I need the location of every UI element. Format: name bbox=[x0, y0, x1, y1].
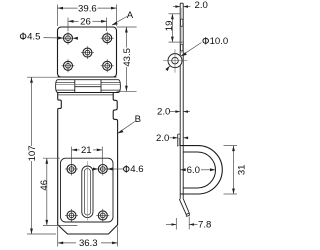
knuckle divider left bbox=[74, 80, 76, 93]
side knuckle lines bbox=[56, 81, 75, 83]
dim 26 ext lines bbox=[67, 18, 69, 32]
D loop outer bbox=[180, 146, 222, 194]
19 arrows bbox=[171, 14, 174, 19]
107 arrows bbox=[30, 77, 33, 83]
leader A bbox=[112, 17, 127, 25]
dim 107 ext top bbox=[27, 76, 58, 78]
svg-text:31: 31 bbox=[237, 164, 248, 175]
dim 7.8 ext lines bbox=[175, 218, 177, 230]
svg-text:4.6: 4.6 bbox=[130, 164, 143, 175]
inner raised face rounded rect bbox=[61, 158, 114, 222]
strip oval hole 2 bbox=[181, 44, 183, 51]
svg-text:26: 26 bbox=[80, 16, 91, 27]
phi10 arrows bbox=[181, 52, 187, 56]
staple front tab bbox=[178, 134, 181, 146]
leader phi10.0 bbox=[181, 43, 201, 56]
hole BR bbox=[101, 59, 114, 72]
dim 31 line bbox=[233, 146, 235, 194]
svg-text:2.0: 2.0 bbox=[195, 0, 208, 11]
hole TL bbox=[62, 32, 75, 45]
arrowheads side view bbox=[166, 5, 235, 226]
label 43.5 rotated bbox=[122, 48, 133, 68]
svg-text:2.0: 2.0 bbox=[157, 106, 170, 117]
bottom bent tab bbox=[179, 198, 189, 214]
dim 107 ext bottom bbox=[27, 233, 56, 235]
label phi10.0 bbox=[203, 36, 228, 47]
36.3 arrows bbox=[58, 242, 64, 245]
hinge band bbox=[56, 80, 121, 95]
7.8 arrows bbox=[172, 223, 177, 226]
dim 6.0 line bbox=[180, 169, 186, 171]
dim 39.6 line bbox=[58, 7, 78, 9]
lower hole BR bbox=[96, 209, 109, 222]
svg-text:107: 107 bbox=[27, 145, 38, 161]
dim 21 ext lines bbox=[71, 147, 73, 163]
slot inner bbox=[84, 169, 90, 215]
svg-text:7.8: 7.8 bbox=[198, 220, 211, 231]
dim 19 line bbox=[171, 14, 173, 42]
lower hole TL bbox=[65, 163, 78, 176]
lower hole TR bbox=[96, 163, 109, 176]
side strip top cap bbox=[180, 2, 183, 4]
middle knuckle line bbox=[75, 86, 101, 88]
knuckle divider right bbox=[100, 80, 102, 93]
svg-text:10.0: 10.0 bbox=[210, 36, 229, 47]
dim 26 line bbox=[68, 20, 79, 22]
svg-text:46: 46 bbox=[39, 180, 50, 191]
21 arrows bbox=[72, 149, 78, 152]
dim 107 line bbox=[31, 77, 33, 234]
dim 21 line bbox=[72, 149, 80, 151]
lower plate outline bbox=[58, 93, 118, 234]
phi4.5 arrow left bbox=[58, 37, 63, 40]
svg-text:19: 19 bbox=[164, 21, 175, 32]
svg-text:4.5: 4.5 bbox=[27, 31, 40, 42]
pin centerline bbox=[56, 84, 121, 86]
dim 19 ext lines bbox=[169, 13, 181, 15]
A arrow bbox=[112, 22, 118, 26]
strip oval hole 1 bbox=[181, 19, 183, 26]
leader B bbox=[118, 122, 135, 134]
26 arrows bbox=[68, 20, 74, 23]
43.5 arrows bbox=[125, 27, 128, 33]
2.0 lower arrows bbox=[173, 137, 178, 140]
label 107 rotated bbox=[27, 145, 38, 161]
hole TR bbox=[101, 32, 114, 45]
svg-text:B: B bbox=[135, 114, 141, 125]
dim 43.5 ext line top bbox=[117, 26, 137, 28]
barrel centerlines bbox=[163, 60, 187, 62]
svg-text:2.0: 2.0 bbox=[156, 133, 169, 144]
slot outer bbox=[82, 166, 93, 218]
dim 36.3 ext lines bbox=[57, 227, 59, 247]
label phi4.5 bbox=[20, 31, 40, 42]
phi4.6 arrow left bbox=[93, 168, 98, 171]
39.6 arrows bbox=[58, 7, 64, 10]
leader phi4.6 bbox=[108, 168, 124, 170]
dim 39.6 ext lines bbox=[57, 5, 59, 27]
slot centerline bbox=[86, 161, 88, 221]
D loop inner bbox=[183, 152, 215, 188]
svg-text:36.3: 36.3 bbox=[79, 238, 98, 249]
hole center bbox=[81, 46, 94, 59]
phi4.6 arrow right bbox=[107, 168, 112, 171]
lower hole BL bbox=[65, 209, 78, 222]
B arrow bbox=[118, 130, 124, 134]
top plate bottom edge bbox=[58, 76, 117, 78]
dim 2.0 top bbox=[173, 6, 180, 8]
hinge barrel circle bbox=[168, 54, 182, 68]
dim 36.3 line bbox=[58, 242, 76, 244]
label phi4.6 bbox=[124, 164, 144, 175]
svg-text:A: A bbox=[127, 10, 134, 21]
side strip right line bbox=[182, 3, 184, 198]
hole BL bbox=[62, 59, 75, 72]
svg-text:39.6: 39.6 bbox=[78, 3, 97, 14]
2.0 mid arrows bbox=[175, 110, 180, 113]
dim 2.0 mid bbox=[170, 111, 180, 113]
texts side view bbox=[156, 0, 248, 231]
svg-text:6.0: 6.0 bbox=[187, 165, 200, 176]
2.0 top arrows bbox=[175, 5, 180, 8]
top plate outline bbox=[58, 27, 117, 77]
side strip left line bbox=[179, 3, 181, 199]
arrowheads front view bbox=[30, 7, 128, 245]
dim 31 ext lines bbox=[224, 145, 238, 147]
lower leaf edge behind hinge bbox=[58, 94, 113, 96]
dim 43.5 ext line bottom bbox=[117, 90, 137, 92]
band outline with rounded end caps bbox=[56, 80, 121, 93]
dim 46 line bbox=[46, 158, 48, 225]
dim 43.5 line bbox=[125, 27, 127, 91]
dim 2.0 lower bbox=[170, 137, 178, 139]
texts front view bbox=[20, 3, 143, 249]
dim 46 ext lines bbox=[43, 157, 60, 159]
6.0 arrows bbox=[180, 168, 185, 171]
31 arrows bbox=[232, 146, 235, 152]
side strip middle faint line bbox=[181, 8, 183, 53]
phi4.5 arrow right bbox=[73, 37, 78, 40]
leader phi4.5 bbox=[44, 37, 63, 39]
svg-text:43.5: 43.5 bbox=[122, 48, 133, 67]
46 arrows bbox=[45, 158, 48, 164]
dim 7.8 line bbox=[166, 224, 176, 226]
svg-text:21: 21 bbox=[81, 145, 92, 156]
